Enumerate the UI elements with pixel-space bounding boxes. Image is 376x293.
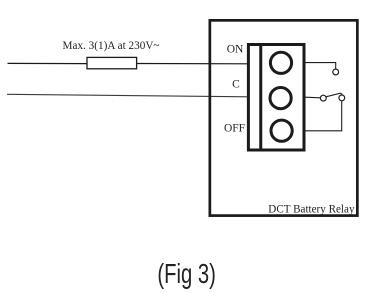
wire L (line) left of fuse xyxy=(8,62,88,64)
fuse value label "Max. 3(1)A at 230V~" xyxy=(63,40,160,52)
wire C terminal to switch pole xyxy=(305,96,320,99)
terminal C (middle circle) xyxy=(270,88,291,109)
svg-text:DCT Battery Relay: DCT Battery Relay xyxy=(268,204,354,216)
terminal block divider xyxy=(259,45,262,151)
caption (Fig 3) xyxy=(157,258,216,289)
terminal ON (top circle) xyxy=(270,52,291,73)
switch pole (small circle) xyxy=(320,95,326,101)
label C xyxy=(232,79,240,91)
svg-text:(Fig 3): (Fig 3) xyxy=(157,258,216,289)
svg-text:OFF: OFF xyxy=(224,122,245,134)
label ON xyxy=(227,44,244,56)
enclosure box DCT Battery Relay xyxy=(210,20,358,215)
wire L (line) fuse to relay ON terminal xyxy=(137,63,249,65)
wire switch contact OFF to OFF terminal xyxy=(304,101,341,131)
svg-text:C: C xyxy=(232,79,240,91)
svg-text:ON: ON xyxy=(227,44,244,56)
fuse F1 Max 3(1)A xyxy=(87,57,137,68)
wire N to relay C terminal xyxy=(7,94,249,97)
switch contact OFF (small circle) xyxy=(339,95,345,101)
svg-text:Max. 3(1)A at 230V~: Max. 3(1)A at 230V~ xyxy=(63,40,160,52)
label OFF xyxy=(224,122,245,134)
terminal OFF (bottom circle) xyxy=(271,120,292,141)
label DCT Battery Relay xyxy=(268,204,354,216)
switch contact ON (small circle) xyxy=(333,69,339,75)
wire ON terminal to switch contact xyxy=(305,63,335,69)
switch lever xyxy=(326,93,343,97)
terminal block outline xyxy=(248,45,304,151)
